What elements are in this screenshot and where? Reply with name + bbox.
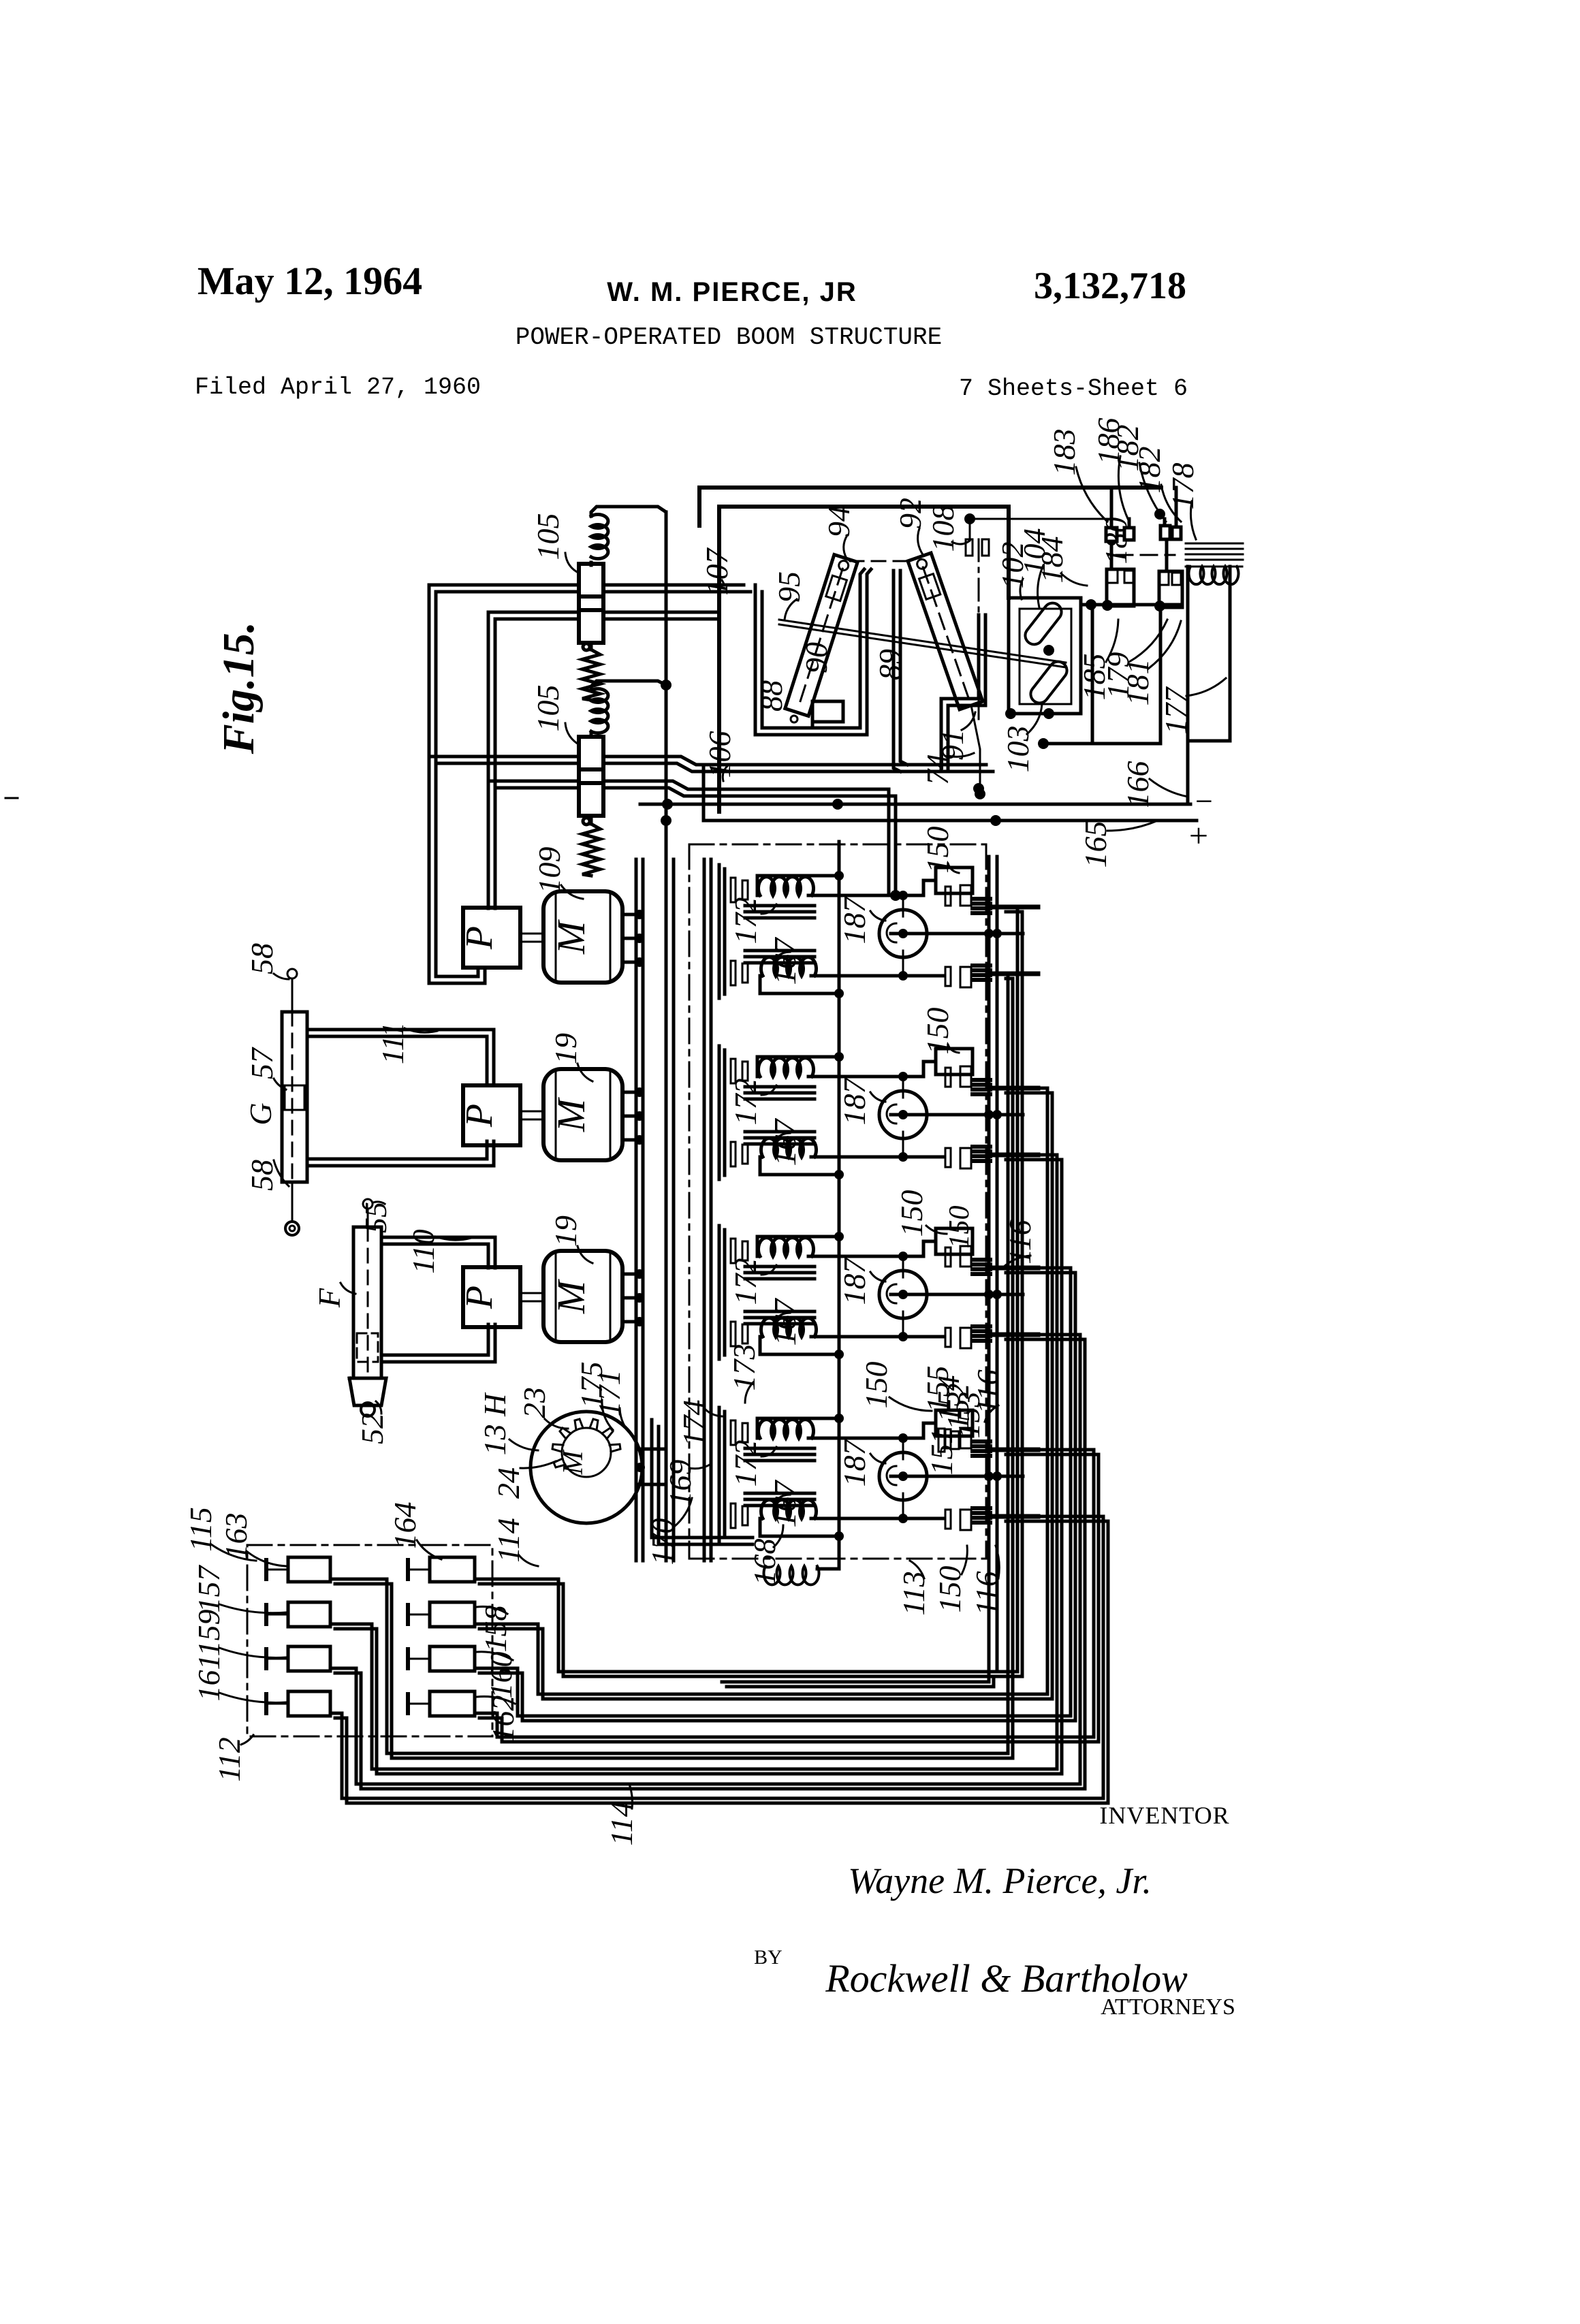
cylinder 90 bottom pin xyxy=(791,716,797,722)
svg-text:−: − xyxy=(1195,784,1213,818)
pipe loop 111 xyxy=(307,1030,494,1085)
label leader xyxy=(477,1696,515,1704)
wire 165 riser xyxy=(702,765,706,821)
label leader xyxy=(1118,456,1129,522)
clevis 52 xyxy=(349,1378,386,1405)
rod eye 58 top xyxy=(287,969,297,978)
transformer coil 172 row 2 xyxy=(759,1058,814,1077)
label leader xyxy=(1186,678,1226,696)
transformer coil 172 row 3 xyxy=(759,1238,814,1256)
label leader xyxy=(373,1202,385,1204)
valve 105 lower solenoid coil xyxy=(591,689,608,733)
wire M to trunk xyxy=(622,1273,636,1276)
svg-text:M: M xyxy=(549,1279,593,1314)
label leader xyxy=(417,1540,441,1559)
wire 181 down xyxy=(1092,607,1160,744)
coupling plates row 4 xyxy=(731,1420,736,1445)
label leader xyxy=(1002,1256,1030,1268)
pipe left inner bus xyxy=(487,612,490,908)
label leader xyxy=(745,1382,753,1403)
svg-text:150: 150 xyxy=(944,1206,975,1249)
trunk wires vertical xyxy=(635,859,638,1561)
pushbutton switch left 1 xyxy=(288,1557,330,1582)
label leader xyxy=(578,1064,592,1081)
wire 185 down to box xyxy=(1043,605,1092,744)
label leader xyxy=(1027,704,1042,734)
label leader xyxy=(962,712,975,730)
svg-text:90: 90 xyxy=(799,642,834,673)
motor M xyxy=(543,891,622,983)
svg-text:167: 167 xyxy=(768,1480,802,1528)
svg-text:G: G xyxy=(243,1102,278,1125)
svg-text:Wayne M. Pierce, Jr.: Wayne M. Pierce, Jr. xyxy=(848,1860,1152,1901)
pipe wall around cylinder 90 outer xyxy=(755,569,871,735)
wire bottom wrap row 3 xyxy=(760,1337,839,1354)
label leader xyxy=(219,1604,286,1613)
wire box102 to switch bodies xyxy=(1081,603,1182,607)
valve 105 upper return spring xyxy=(583,643,590,650)
svg-text:89: 89 xyxy=(872,649,907,680)
wire harness path 7 xyxy=(330,1335,1080,1784)
label leader xyxy=(1148,621,1181,669)
boundary dash-dot vertical left xyxy=(689,844,691,1559)
label leader 172 xyxy=(761,1085,776,1095)
label leader xyxy=(565,723,580,745)
svg-text:178: 178 xyxy=(1165,463,1200,510)
pipe valve 105 upper left xyxy=(429,584,579,587)
wire harness path 4 xyxy=(475,1450,1094,1737)
label leader xyxy=(1038,565,1043,607)
svg-text:23: 23 xyxy=(517,1387,552,1418)
label leader xyxy=(477,1606,507,1614)
svg-text:107: 107 xyxy=(699,547,734,596)
svg-text:55: 55 xyxy=(358,1202,393,1233)
pipe valve 105 lower left xyxy=(429,755,579,759)
relay 150 row 1 xyxy=(936,867,973,893)
transformer coil 167 row 2 xyxy=(761,1139,817,1157)
svg-text:74: 74 xyxy=(920,754,955,785)
label leader xyxy=(844,535,847,558)
svg-text:P: P xyxy=(458,926,501,950)
dashed link 92-94 xyxy=(850,560,915,562)
svg-text:187: 187 xyxy=(837,1439,872,1487)
svg-text:180: 180 xyxy=(1099,518,1133,564)
svg-text:+: + xyxy=(1189,816,1208,855)
svg-text:BY: BY xyxy=(754,1946,783,1969)
shaft xyxy=(520,933,543,935)
label leader 187 xyxy=(870,1092,885,1102)
valve 105 upper pilot loop xyxy=(591,507,666,526)
wire top wrap row 4 xyxy=(757,1418,839,1438)
coupling plates row 2 xyxy=(731,1059,736,1083)
switch wires from top bus xyxy=(1110,488,1113,528)
switch body 181 xyxy=(1159,571,1182,607)
pushbutton switch right 1 xyxy=(430,1557,475,1582)
piston 57 xyxy=(285,1085,304,1110)
svg-text:105: 105 xyxy=(531,685,565,732)
transformer core row 1 lower xyxy=(745,949,815,953)
svg-text:M: M xyxy=(558,1450,589,1476)
pushbutton switch left 4 xyxy=(288,1691,330,1716)
pipe wall right of cylinder 89 xyxy=(941,615,979,768)
stray mark left margin xyxy=(5,797,18,799)
extra coil 168 row4 xyxy=(764,1566,819,1585)
svg-text:95: 95 xyxy=(772,571,806,603)
label leader xyxy=(1061,573,1087,586)
node column row 4 xyxy=(838,1384,841,1564)
svg-text:114: 114 xyxy=(604,1801,639,1846)
svg-text:57: 57 xyxy=(244,1047,279,1079)
wire top wrap row 2 xyxy=(757,1057,839,1077)
wire right bus to bundle xyxy=(722,1672,989,1682)
svg-text:M: M xyxy=(549,1097,593,1132)
label leader xyxy=(704,1408,722,1416)
pipe wall cylinder 90 inner pocket xyxy=(812,701,843,728)
label leader xyxy=(219,1648,286,1657)
wire harness path 1 xyxy=(475,907,1017,1672)
svg-text:POWER-OPERATED BOOM STRUCTURE: POWER-OPERATED BOOM STRUCTURE xyxy=(516,323,943,351)
pushbutton switch left 3 xyxy=(288,1646,330,1671)
node column row 1 xyxy=(838,842,841,1021)
wire pilot node vertical xyxy=(665,512,668,1561)
wire harness path 3 xyxy=(475,1268,1071,1716)
coupling frame row 1 xyxy=(718,865,721,998)
label leader xyxy=(1107,821,1158,831)
svg-text:172: 172 xyxy=(728,1079,763,1126)
pipe valve 105 upper right xyxy=(603,584,744,587)
wire harness path 6 xyxy=(330,1155,1057,1769)
pushbutton switch right 2 xyxy=(430,1602,475,1627)
label leader xyxy=(211,1544,256,1561)
right bus verticals xyxy=(987,857,991,1672)
valve 105 upper body xyxy=(579,564,603,596)
svg-text:165: 165 xyxy=(1078,821,1113,868)
transformer core row 2 upper xyxy=(745,1085,815,1089)
vacuum tube 187 row 4 xyxy=(879,1452,927,1500)
svg-text:P: P xyxy=(458,1104,501,1128)
svg-text:172: 172 xyxy=(728,897,763,944)
valve 105 lower body xyxy=(579,737,603,769)
label leader 172 xyxy=(761,904,776,914)
label leader xyxy=(996,1546,999,1578)
shaft xyxy=(520,1292,543,1294)
wire 165 plus bus xyxy=(704,819,1197,823)
wire bottom wrap row 4 xyxy=(760,1518,839,1536)
wire harness path 5 xyxy=(330,974,1008,1753)
wire 170 frame xyxy=(652,1420,753,1538)
dash-dot link 108 xyxy=(978,539,980,723)
relay contacts upper row 4 xyxy=(945,1429,951,1448)
pipe valve 105 lower right jog xyxy=(603,757,986,765)
svg-text:116: 116 xyxy=(970,1369,1005,1414)
label leader xyxy=(952,541,970,544)
label leader 187 xyxy=(870,911,885,921)
label leader xyxy=(948,753,974,757)
relay contacts upper row 3 xyxy=(945,1247,951,1267)
wire bottom wrap row 1 xyxy=(760,976,839,993)
label leader xyxy=(578,1246,592,1263)
label leader xyxy=(1106,620,1118,662)
boundary dash-dot vertical right 113 xyxy=(985,844,987,1559)
boundary dash-dot horizontal 113 xyxy=(689,1558,986,1560)
transformer core row 1 upper xyxy=(745,904,815,908)
svg-text:106: 106 xyxy=(702,731,737,778)
label leader xyxy=(509,1439,538,1450)
wire 177 right side xyxy=(1188,567,1230,741)
pump P xyxy=(463,908,520,968)
svg-text:173: 173 xyxy=(727,1344,761,1391)
boom member 95 xyxy=(779,620,1066,663)
label leader xyxy=(274,1079,286,1089)
hydraulic cylinder 90 xyxy=(785,555,857,716)
boundary dash-dot box 113 top xyxy=(689,844,986,846)
svg-text:172: 172 xyxy=(728,1440,763,1487)
wire harness path 8 xyxy=(330,1516,1103,1798)
contact plates 108 xyxy=(966,539,973,556)
svg-text:166: 166 xyxy=(1120,761,1155,808)
label leader 167 xyxy=(774,1313,790,1322)
svg-text:52: 52 xyxy=(355,1413,390,1444)
label leader xyxy=(1139,463,1166,522)
transformer coil 167 row 3 xyxy=(761,1318,817,1337)
control box 102 xyxy=(1009,598,1081,714)
label leader 167 xyxy=(774,1133,790,1143)
pipe valve 105 upper lower pair xyxy=(488,611,579,614)
label leader xyxy=(985,1405,998,1422)
pushbutton switch left 2 xyxy=(288,1602,330,1627)
relay contacts lower row 1 xyxy=(945,967,951,986)
label leader xyxy=(341,1283,355,1294)
label leader xyxy=(247,1551,286,1566)
wire gear motor right xyxy=(641,1448,666,1451)
label leader xyxy=(241,1735,253,1745)
label leader xyxy=(477,1652,513,1660)
shaft xyxy=(520,1111,543,1113)
svg-text:7 Sheets-Sheet 6: 7 Sheets-Sheet 6 xyxy=(959,375,1188,402)
svg-text:177: 177 xyxy=(1158,686,1193,735)
label leader xyxy=(785,599,797,620)
wire M to trunk xyxy=(622,1091,636,1094)
relay 150 row 4 xyxy=(936,1410,973,1436)
svg-text:58: 58 xyxy=(244,943,279,974)
cylinder G body xyxy=(282,1012,307,1182)
relay 150 row 2 xyxy=(936,1049,973,1075)
motor M xyxy=(543,1069,622,1160)
relay contacts upper row 1 xyxy=(945,887,951,906)
wire harness path 2 xyxy=(475,1088,1047,1694)
label leader xyxy=(1190,501,1196,539)
label leader xyxy=(565,553,580,573)
node column row 3 xyxy=(838,1203,841,1382)
svg-text:88: 88 xyxy=(754,680,789,712)
valve 105 lower return spring xyxy=(583,818,590,825)
pushbutton switch right 4 xyxy=(430,1691,475,1716)
switch body 185 xyxy=(1107,569,1134,606)
transformer coil 172 row 1 xyxy=(759,877,814,895)
svg-text:INVENTOR: INVENTOR xyxy=(1099,1802,1229,1829)
label leader 172 xyxy=(761,1447,776,1457)
label leader xyxy=(1150,779,1188,797)
svg-text:13 H: 13 H xyxy=(477,1392,512,1456)
svg-text:150: 150 xyxy=(859,1362,894,1409)
label leader xyxy=(376,1401,381,1414)
label leader xyxy=(274,1160,289,1186)
label leader 187 xyxy=(870,1454,885,1463)
label leader xyxy=(629,1784,633,1809)
svg-text:ATTORNEYS: ATTORNEYS xyxy=(1101,1994,1235,2020)
svg-text:171: 171 xyxy=(592,1370,627,1417)
transformer core 178 xyxy=(1186,543,1243,545)
svg-text:P: P xyxy=(458,1286,501,1309)
relay contacts lower row 2 xyxy=(945,1148,951,1167)
vacuum tube 187 row 2 xyxy=(879,1091,927,1139)
coupling frame row 2 xyxy=(718,1046,721,1179)
label leader 150 rows xyxy=(948,863,959,873)
svg-text:94: 94 xyxy=(821,506,856,537)
switch wires from node 108 xyxy=(1128,519,1131,528)
node column row 2 xyxy=(838,1023,841,1203)
label leader xyxy=(689,1464,711,1469)
label leader xyxy=(620,1408,633,1437)
cylinder F body xyxy=(353,1227,381,1378)
label leader xyxy=(219,1693,286,1702)
label leader xyxy=(722,580,724,584)
wire top wrap row 1 xyxy=(757,876,839,895)
svg-text:19: 19 xyxy=(548,1215,583,1247)
label leader xyxy=(723,766,727,781)
switch link dashed 182 xyxy=(1116,554,1175,556)
label leader 167 xyxy=(774,1495,790,1504)
svg-text:3,132,718: 3,132,718 xyxy=(1034,265,1186,307)
pipe wall around cylinder 89 xyxy=(894,571,900,771)
transformer core row 4 lower xyxy=(745,1492,815,1495)
wire top boundary outer xyxy=(699,488,1161,526)
label leader xyxy=(1161,485,1181,522)
svg-text:92: 92 xyxy=(893,498,928,529)
svg-text:167: 167 xyxy=(768,1298,802,1346)
relay contacts upper row 2 xyxy=(945,1068,951,1087)
wire M to trunk xyxy=(622,913,636,917)
label leader 172 xyxy=(761,1265,776,1275)
vacuum tube 187 row 1 xyxy=(879,910,927,957)
svg-text:M: M xyxy=(549,919,593,955)
lever 103 xyxy=(1027,658,1071,706)
gear 13H xyxy=(552,1419,620,1467)
svg-text:24: 24 xyxy=(491,1467,526,1499)
vacuum tube 187 row 3 xyxy=(879,1271,927,1318)
relay contacts lower row 4 xyxy=(945,1510,951,1529)
svg-text:158: 158 xyxy=(478,1606,513,1653)
motor M xyxy=(543,1251,622,1342)
svg-text:W. M. PIERCE, JR: W. M. PIERCE, JR xyxy=(607,277,857,307)
wire top boundary inner xyxy=(719,507,1009,812)
transformer coil 172 row 4 xyxy=(759,1420,814,1438)
relay 150 row 3 xyxy=(936,1228,973,1254)
coupling plates row 1 xyxy=(731,878,736,902)
svg-text:May 12, 1964: May 12, 1964 xyxy=(197,259,422,303)
transformer coil 167 row 4 xyxy=(761,1500,817,1518)
transformer core row 4 upper xyxy=(745,1447,815,1450)
rod pin 55 xyxy=(363,1199,373,1209)
label leader xyxy=(910,1561,924,1578)
rod eye 58 bottom xyxy=(291,1182,294,1222)
coupling plates row 3 xyxy=(731,1239,736,1263)
svg-text:Fig.15.: Fig.15. xyxy=(214,622,264,754)
hydraulic cylinder 89 xyxy=(908,553,983,710)
pump P xyxy=(463,1085,520,1145)
label leader xyxy=(405,1028,437,1032)
transformer core row 3 upper xyxy=(745,1265,815,1269)
transformer core row 2 lower xyxy=(745,1130,815,1134)
wire bottom wrap row 2 xyxy=(760,1157,839,1175)
svg-text:113: 113 xyxy=(896,1571,931,1616)
wire top wrap row 3 xyxy=(757,1237,839,1256)
svg-text:108: 108 xyxy=(926,505,960,552)
switch stems xyxy=(1110,541,1113,569)
label leader xyxy=(545,1419,568,1429)
svg-text:174: 174 xyxy=(676,1400,711,1447)
svg-text:105: 105 xyxy=(531,513,565,560)
contact plates 151 row4 xyxy=(938,1429,945,1452)
valve 105 lower pilot loop xyxy=(591,681,666,690)
svg-text:F: F xyxy=(312,1288,347,1308)
label leader 167 xyxy=(774,952,790,961)
relay contacts lower row 3 xyxy=(945,1328,951,1347)
svg-text:187: 187 xyxy=(837,896,872,944)
transformer coil 178 xyxy=(1189,567,1239,584)
svg-text:Filed April 27, 1960: Filed April 27, 1960 xyxy=(195,374,481,401)
switch panel boundary 112 xyxy=(247,1545,492,1736)
label leader xyxy=(602,1400,613,1430)
pipe loop 110 xyxy=(381,1237,495,1268)
coupling frame row 4 xyxy=(718,1407,721,1541)
svg-text:150: 150 xyxy=(894,1190,929,1237)
label leader xyxy=(1076,467,1107,522)
svg-text:181: 181 xyxy=(1120,659,1155,706)
transformer core row 3 lower xyxy=(745,1310,815,1314)
label leader xyxy=(1129,620,1167,662)
rod 74 xyxy=(971,705,980,794)
label leader xyxy=(918,528,923,556)
pump P xyxy=(463,1267,520,1327)
label leader xyxy=(519,1555,538,1566)
wire 177 left side xyxy=(1186,567,1190,804)
label leader xyxy=(674,1498,692,1527)
lever 104 xyxy=(1022,599,1065,648)
switch contacts upper 183 186 xyxy=(1106,528,1117,541)
svg-text:168: 168 xyxy=(747,1539,782,1586)
label leader xyxy=(435,1237,471,1240)
label leader xyxy=(962,1546,967,1574)
label leader xyxy=(1020,579,1023,599)
svg-text:167: 167 xyxy=(768,1118,802,1166)
coupling frame row 3 xyxy=(718,1226,721,1359)
label leader xyxy=(561,885,583,899)
label leader xyxy=(774,1525,783,1547)
wire 166 minus bus xyxy=(640,803,1190,806)
pushbutton switch right 3 xyxy=(430,1646,475,1671)
label leader xyxy=(520,1461,556,1468)
pipe valve 105 lower bottom pair xyxy=(488,780,579,783)
gear motor housing 23 xyxy=(531,1412,642,1523)
svg-text:187: 187 xyxy=(837,1257,872,1305)
svg-text:187: 187 xyxy=(837,1077,872,1126)
svg-text:160: 160 xyxy=(484,1652,518,1699)
label leader 187 xyxy=(870,1272,885,1282)
svg-text:19: 19 xyxy=(548,1033,583,1064)
svg-text:162: 162 xyxy=(486,1696,520,1742)
svg-text:172: 172 xyxy=(728,1258,763,1305)
